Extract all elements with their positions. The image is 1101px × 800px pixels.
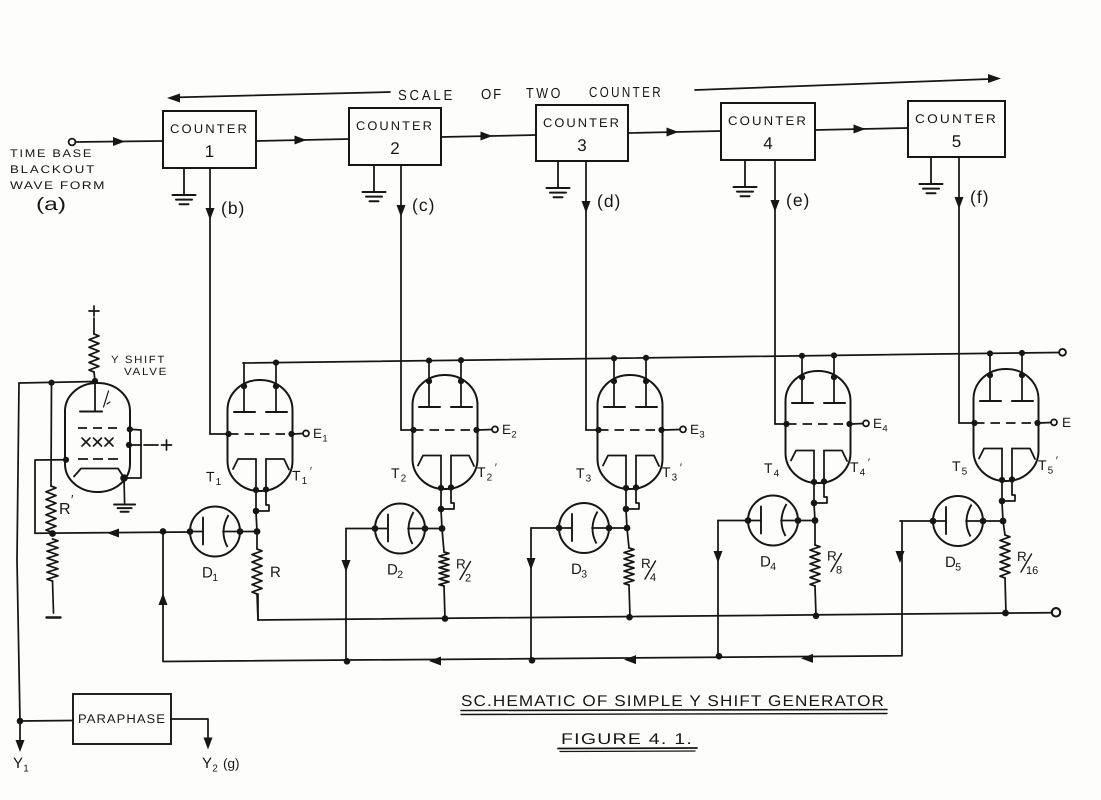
node D3 drop on return line <box>529 657 536 664</box>
wire R2 top lead <box>442 529 444 553</box>
svg-text:COUNTER: COUNTER <box>356 119 434 133</box>
node E terminal circle <box>863 420 869 426</box>
svg-text:(c): (c) <box>412 195 435 215</box>
wire counter 3 to counter 4 <box>628 128 721 137</box>
ground under counter 1 <box>173 168 196 204</box>
svg-text:2: 2 <box>397 569 403 581</box>
svg-text:T: T <box>1038 457 1047 473</box>
diode D2 cathode bar <box>375 515 388 542</box>
node T2 anode bus junctions <box>426 357 464 364</box>
diode D3 anode arc <box>592 512 609 544</box>
wire R5 bottom lead <box>1005 578 1006 613</box>
valve V1 grid 2 (dashed) <box>78 458 121 460</box>
label D3 <box>571 561 587 581</box>
label R/16 <box>1017 549 1038 577</box>
tube T4 cathodes <box>791 451 847 462</box>
wire HT top bus <box>243 353 1059 364</box>
wire counter 1 output (b) with arrow <box>206 168 215 434</box>
node HT bus right terminal <box>1059 349 1066 356</box>
svg-text:1: 1 <box>23 764 29 775</box>
svg-text:3: 3 <box>577 136 586 155</box>
diode D1 cathode bar <box>190 518 203 545</box>
label E <box>1062 415 1071 430</box>
wire R3 top lead <box>627 528 629 548</box>
label T2 <box>391 465 407 485</box>
svg-text:E: E <box>502 422 511 437</box>
wire T1 anode leads <box>244 363 276 412</box>
node T5 grid-right junction <box>1034 420 1040 426</box>
wire scale-of-two right arrow line <box>695 74 1001 90</box>
node D3-R junction <box>624 525 631 532</box>
wire T3 anode leads <box>614 358 646 407</box>
node T2 grid-left junction <box>410 427 416 433</box>
svg-text:′: ′ <box>1056 455 1058 467</box>
diode D1 anode arc <box>223 515 240 547</box>
wire grid lead from counter 4 <box>775 423 787 425</box>
label (f) <box>970 187 990 207</box>
svg-text:COUNTER: COUNTER <box>915 112 998 126</box>
valve V1 envelope <box>65 383 130 492</box>
label T3 <box>576 465 592 485</box>
diode D4 cathode bar <box>748 507 761 534</box>
svg-text:Y SHIFT: Y SHIFT <box>111 354 166 366</box>
wire T1 cathode leads <box>256 459 269 512</box>
label T4 <box>764 460 780 480</box>
node D5 left junction <box>930 518 937 525</box>
tube T2/T2' envelope <box>413 375 478 489</box>
node grid1-right junction <box>127 426 133 432</box>
wire T4 anode leads <box>802 355 834 403</box>
node T3 envelope-bottom crossings <box>623 484 639 491</box>
svg-text:COUNTER: COUNTER <box>728 114 808 128</box>
node bottom bus right terminal <box>1052 608 1060 616</box>
tube T2 cathodes <box>418 456 474 467</box>
node T3 grid-left junction <box>595 427 601 433</box>
wire Y2 output <box>171 719 213 750</box>
wire D1 to cathode node <box>240 531 257 533</box>
svg-text:3: 3 <box>672 473 678 484</box>
resistor ladder R <box>252 549 262 594</box>
node T1 grid-left junction <box>225 431 231 437</box>
node cathode-bracket junction <box>623 506 630 513</box>
counter box 3 <box>536 105 628 161</box>
node D2 right junction <box>422 525 429 532</box>
node D2 drop on return line <box>344 658 351 665</box>
label Y2 (g) <box>202 755 240 775</box>
wire T2 anode leads <box>429 360 461 407</box>
svg-text:(a): (a) <box>36 194 66 214</box>
node T4 envelope-top crossings <box>799 374 837 380</box>
counter box 4 <box>721 103 815 160</box>
node T3 envelope-top crossings <box>611 378 649 384</box>
wire far-left vertical <box>17 383 20 721</box>
node T4 anode bus junctions <box>799 352 837 359</box>
node bottom bus R/16 junction <box>1002 610 1009 617</box>
tube T5 cathodes <box>979 449 1035 460</box>
diode D3 envelope <box>559 503 609 553</box>
svg-text:T: T <box>576 465 585 481</box>
node E terminal circle <box>680 426 686 432</box>
node cathode-bracket junction <box>999 498 1006 505</box>
negative terminal bar <box>47 616 61 618</box>
svg-text:T: T <box>662 464 671 480</box>
label E4 <box>873 416 888 435</box>
wire grid lead from counter 2 <box>401 429 414 431</box>
node cathode-bracket junction <box>811 500 818 507</box>
node D5-R junction <box>1000 518 1007 525</box>
tube T1 grid (dashed) <box>229 433 291 435</box>
title FIGURE 4.1. <box>561 731 693 748</box>
node D4 right junction <box>795 517 802 524</box>
label Y SHIFT VALVE <box>111 354 168 378</box>
svg-text:1: 1 <box>216 477 222 488</box>
wire R4 top lead <box>814 521 816 546</box>
label D5 <box>945 554 961 574</box>
svg-text:2: 2 <box>390 139 399 158</box>
svg-text:TWO: TWO <box>526 86 563 102</box>
label T5' <box>1038 455 1058 477</box>
node D4-R junction <box>812 517 819 524</box>
node bottom bus R/4 junction <box>626 614 633 621</box>
tube T4/T4' envelope <box>786 371 851 483</box>
svg-text:TIME BASE: TIME BASE <box>10 148 93 160</box>
wire to paraphase <box>20 720 73 723</box>
node E terminal circle <box>492 426 498 432</box>
svg-text:T: T <box>292 468 301 484</box>
wire grid bias line <box>35 529 190 538</box>
label T1 <box>206 469 222 489</box>
svg-text:5: 5 <box>955 562 961 574</box>
wire screen + lead <box>144 444 158 446</box>
wire R1 bottom lead <box>257 594 258 620</box>
svg-text:T: T <box>477 464 486 480</box>
label D1 <box>202 565 218 585</box>
node T4 grid-right junction <box>846 421 852 427</box>
wire R4 bottom lead <box>815 586 816 616</box>
figure underline <box>558 748 697 752</box>
node D3 left junction <box>556 525 563 532</box>
label R/2 <box>456 557 471 585</box>
svg-text:(f): (f) <box>970 187 990 207</box>
node T5 anode bus junctions <box>987 350 1025 357</box>
svg-text:PARAPHASE: PARAPHASE <box>78 712 166 726</box>
wire T4 cathode leads <box>814 451 827 505</box>
label (c) <box>412 195 435 215</box>
node T4 grid-left junction <box>783 421 789 427</box>
valve V1 suppressor x x x <box>82 438 113 446</box>
svg-text:′: ′ <box>680 462 682 474</box>
tube T4 grid (dashed) <box>787 423 849 425</box>
valve V1 anode <box>80 383 102 412</box>
label Y1 <box>13 755 29 775</box>
resistor R' upper <box>46 486 56 532</box>
svg-text:Y: Y <box>202 755 212 772</box>
svg-text:4: 4 <box>650 572 656 584</box>
label TIME BASE BLACKOUT WAVEFORM <box>10 148 106 192</box>
svg-text:16: 16 <box>1026 565 1038 577</box>
ground valve cathode <box>114 505 135 512</box>
label + (HT supply) <box>89 306 99 316</box>
wire E5 terminal lead <box>1040 422 1051 425</box>
node T1 envelope-bottom crossings <box>253 486 269 493</box>
svg-text:R: R <box>456 557 466 572</box>
wire E4 terminal lead <box>852 423 863 426</box>
label (a) <box>36 194 66 214</box>
wire R' upper lead <box>50 383 53 486</box>
svg-text:1: 1 <box>302 476 308 487</box>
svg-text:4: 4 <box>770 561 776 573</box>
ground under counter 3 <box>547 161 570 197</box>
svg-text:1: 1 <box>205 142 214 161</box>
svg-text:(e): (e) <box>786 190 810 210</box>
wire cathode to diode line <box>814 504 815 521</box>
svg-text:2: 2 <box>465 573 471 585</box>
wire E1 terminal lead <box>294 433 303 436</box>
wire Y1 output <box>16 721 25 752</box>
svg-text:OF: OF <box>481 87 503 103</box>
wire bus to terminal <box>1050 611 1052 613</box>
node E terminal circle <box>303 430 309 436</box>
node D5 right junction <box>980 518 987 525</box>
node D1 left junction <box>187 528 194 535</box>
diode D5 envelope <box>933 496 983 546</box>
wire grid lead from counter 1 <box>210 433 229 435</box>
svg-text:COUNTER: COUNTER <box>543 116 621 130</box>
tube T5 plates <box>980 400 1033 402</box>
node cathode junction <box>120 474 128 482</box>
wire bottom bus <box>258 594 1050 620</box>
svg-text:4: 4 <box>860 468 866 479</box>
svg-text:4: 4 <box>882 424 887 435</box>
svg-text:3: 3 <box>699 430 704 441</box>
svg-text:3: 3 <box>581 569 587 581</box>
node cathode-bracket junction <box>438 506 445 513</box>
wire cathode to diode line <box>626 510 627 528</box>
wire T2 cathode leads <box>441 456 454 511</box>
node D4 left junction <box>745 517 752 524</box>
label R/4 <box>641 556 656 584</box>
label T3' <box>662 462 682 484</box>
node paraphase input junction <box>17 718 24 725</box>
node D2 left junction <box>372 525 379 532</box>
tube T1 cathodes <box>233 459 289 470</box>
svg-text:8: 8 <box>836 565 842 577</box>
wire E3 terminal lead <box>664 429 680 432</box>
svg-text:(g): (g) <box>223 756 240 771</box>
resistor ladder R/16 <box>1000 535 1010 578</box>
wire D3 to cathode node <box>609 527 627 529</box>
label D4 <box>760 554 776 574</box>
diode D5 cathode bar <box>933 507 946 534</box>
tube T2 grid (dashed) <box>414 429 476 431</box>
node D2-R junction <box>439 525 446 532</box>
svg-text:′: ′ <box>310 466 312 478</box>
wire cathode to diode line <box>256 512 257 532</box>
node T1 anode bus junctions <box>273 359 279 365</box>
wire grid lead from counter 3 <box>586 429 599 431</box>
wire T5 cathode leads <box>1002 449 1015 503</box>
svg-text:COUNTER: COUNTER <box>170 122 249 136</box>
svg-text:T: T <box>952 458 961 474</box>
diode D5 anode arc <box>966 505 983 537</box>
svg-text:E: E <box>690 422 699 437</box>
node valve anode junction <box>92 378 98 384</box>
svg-text:′: ′ <box>868 457 870 469</box>
node T2 envelope-bottom crossings <box>438 484 454 491</box>
wire E2 terminal lead <box>479 429 492 432</box>
wire D5 left lead <box>896 521 934 563</box>
wire screen bracket <box>125 429 142 478</box>
ground under counter 2 <box>363 165 386 201</box>
label E1 <box>313 426 328 445</box>
tube T4 plates <box>792 402 845 404</box>
node T5 envelope-top crossings <box>987 372 1025 378</box>
svg-text:4: 4 <box>774 469 780 480</box>
node xxx-right junction <box>126 442 132 448</box>
svg-text:SC.HEMATIC OF SIMPLE Y SHIF: SC.HEMATIC OF SIMPLE Y SHIFT GENERATOR <box>461 693 885 710</box>
wire D2 left lead <box>342 529 376 662</box>
wire counter 1 to counter 2 <box>256 136 349 145</box>
wire return line 2 <box>159 521 903 666</box>
counter box 2 <box>349 108 441 165</box>
svg-text:SCALE: SCALE <box>398 88 455 104</box>
tube T1/T1' envelope <box>228 380 293 491</box>
wire counter 5 output (f) with arrow <box>955 157 964 423</box>
wire T5 anode leads <box>990 353 1022 401</box>
svg-text:R: R <box>641 556 651 571</box>
node T2 envelope-top crossings <box>426 378 464 384</box>
wire D5 to cathode node <box>983 520 1003 522</box>
svg-text:T: T <box>850 459 859 475</box>
svg-text:5: 5 <box>1048 466 1054 477</box>
node return-riser junction <box>160 528 167 535</box>
label T2' <box>477 462 497 484</box>
resistor HT feed (anode load) <box>89 334 99 372</box>
counter box 1 <box>163 111 256 168</box>
label (e) <box>786 190 810 210</box>
resistor ladder R/8 <box>810 545 820 586</box>
wire counter 4 output (e) with arrow <box>771 160 780 424</box>
title SCHEMATIC OF SIMPLE Y SHIFT GENERATOR <box>461 693 885 710</box>
wire time-base input <box>76 137 164 146</box>
wire T3 cathode leads <box>626 456 639 511</box>
wire counter 2 to counter 3 <box>441 132 536 141</box>
diode D1 envelope <box>190 507 240 557</box>
label D2 <box>387 562 403 582</box>
wire cathode to diode line <box>1002 502 1003 521</box>
title underline <box>461 710 887 715</box>
svg-text:R: R <box>1017 549 1027 564</box>
svg-text:BLACKOUT: BLACKOUT <box>10 164 96 176</box>
svg-text:T: T <box>391 465 400 481</box>
tube T5 grid (dashed) <box>975 422 1037 424</box>
svg-text:VALVE: VALVE <box>124 366 168 378</box>
node E terminal circle <box>1051 419 1057 425</box>
label R/8 <box>827 549 842 577</box>
wire cathode to diode line <box>441 510 442 529</box>
diode D4 envelope <box>748 496 798 546</box>
label PARAPHASE <box>78 712 166 726</box>
wire D2 to cathode node <box>425 528 442 530</box>
svg-text:R: R <box>59 501 71 518</box>
label (b) <box>221 198 245 218</box>
label T5 <box>952 458 968 478</box>
wire HT node horizontal <box>19 382 95 384</box>
wire grid lead from counter 5 <box>959 422 975 424</box>
diode D4 anode arc <box>781 504 798 536</box>
node D4 drop on return line <box>716 653 723 660</box>
wire scale-of-two left arrow line <box>167 92 390 103</box>
wire R' bottom lead <box>53 581 54 613</box>
node HT-R' junction <box>48 380 54 386</box>
resistor ladder R/2 <box>439 552 449 586</box>
node T1 grid-right junction <box>288 431 294 437</box>
diode D2 anode arc <box>408 512 425 544</box>
tube T3 plates <box>604 406 657 408</box>
svg-text:1: 1 <box>322 434 327 445</box>
node cathode-bracket junction <box>253 508 260 515</box>
paraphase box <box>73 694 171 744</box>
valve V1 cathode <box>74 469 124 478</box>
wire R5 top lead <box>1003 521 1005 535</box>
resistor R' lower <box>47 539 58 581</box>
node input terminal (a) <box>69 139 76 146</box>
tube T1 plates <box>234 411 287 413</box>
svg-text:E: E <box>873 416 882 431</box>
svg-text:COUNTER: COUNTER <box>589 85 663 101</box>
svg-text:2: 2 <box>487 473 493 484</box>
ground under counter 4 <box>734 160 757 196</box>
label T4' <box>850 457 870 479</box>
label E2 <box>502 422 517 441</box>
node bottom bus R/8 junction <box>813 613 820 620</box>
svg-text:2: 2 <box>511 430 516 441</box>
node D3 right junction <box>606 525 613 532</box>
svg-text:Y: Y <box>13 755 23 772</box>
wire counter 4 to counter 5 <box>815 125 908 134</box>
svg-text:FIGURE 4. 1.: FIGURE 4. 1. <box>561 731 693 748</box>
stray pencil mark <box>104 391 111 407</box>
label T1' <box>292 466 312 488</box>
wire R1 top lead <box>256 532 258 550</box>
tube T5/T5' envelope <box>974 369 1039 481</box>
label SCALE OF TWO COUNTER <box>398 85 663 104</box>
wire HT feed <box>94 318 95 381</box>
label E3 <box>690 422 705 441</box>
wire D4 left lead <box>714 521 749 657</box>
svg-text:R: R <box>270 564 281 581</box>
node D1-R junction <box>254 528 261 535</box>
diode D2 envelope <box>375 504 425 554</box>
svg-text:R: R <box>827 549 837 564</box>
svg-text:5: 5 <box>952 132 961 151</box>
svg-text:2: 2 <box>212 764 218 775</box>
tube T2 plates <box>419 406 472 408</box>
node T1 envelope-top crossings <box>241 383 279 389</box>
wire R2 bottom lead <box>444 586 445 619</box>
node bottom bus R/2 junction <box>442 615 449 622</box>
resistor ladder R/4 <box>624 548 634 585</box>
svg-text:4: 4 <box>763 134 772 153</box>
node D1 right junction <box>237 528 244 535</box>
label R <box>270 564 281 581</box>
svg-text:(d): (d) <box>597 191 621 211</box>
svg-text:2: 2 <box>401 474 407 485</box>
node grid2-left junction <box>63 457 69 463</box>
ground under counter 5 <box>920 157 943 193</box>
wire R3 bottom lead <box>629 585 630 617</box>
node T3 anode bus junctions <box>611 355 649 362</box>
